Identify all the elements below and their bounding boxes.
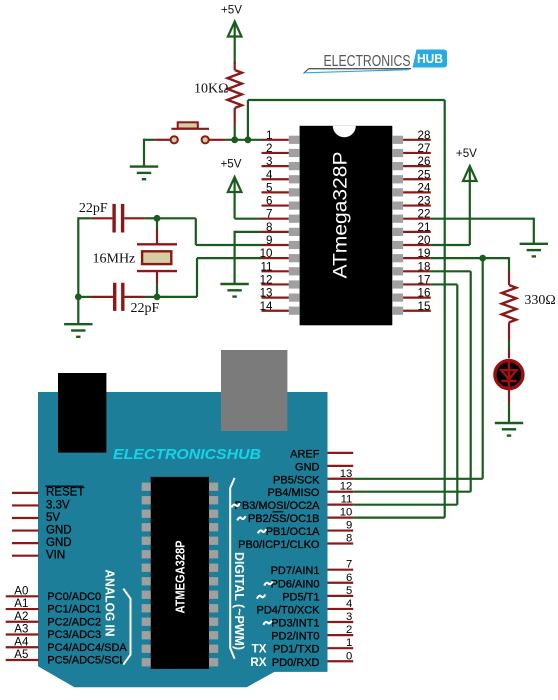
LED D1 — [495, 359, 523, 391]
svg-text:VIN: VIN — [46, 550, 65, 562]
svg-text:ATMEGA328P: ATMEGA328P — [172, 540, 187, 613]
wire XTAL2 to pin10 — [157, 258, 289, 297]
wire pin19 SCK — [403, 257, 509, 259]
wire button left to ground — [144, 139, 170, 167]
wire RESET net top horizontal — [248, 99, 445, 101]
svg-text:PC5/ADC5/SCL: PC5/ADC5/SCL — [47, 655, 125, 667]
resistor R1 10K ohm pullup — [228, 70, 242, 108]
node junction RESET B — [245, 136, 252, 143]
svg-text:3.3V: 3.3V — [46, 499, 70, 511]
wire pin8 to ground — [235, 231, 289, 284]
svg-text:2: 2 — [346, 624, 352, 636]
svg-text:2: 2 — [266, 142, 272, 155]
node junction XTAL2 — [154, 294, 161, 301]
svg-text:ANALOG IN: ANALOG IN — [103, 570, 118, 637]
svg-text:16: 16 — [418, 287, 431, 300]
arduino analog bracket — [123, 589, 130, 665]
wire pin17 to arduino D11 — [353, 284, 457, 504]
svg-text:PC4/ADC4/SDA: PC4/ADC4/SDA — [47, 642, 127, 654]
wire RESET node horizontal to pin1 — [225, 139, 288, 141]
power +5V supply VCC1 label — [221, 4, 242, 17]
push button SW1 right terminal — [202, 136, 209, 143]
IC U1 left pin numbers 1-14 — [260, 129, 273, 313]
svg-text:PD7/AIN1: PD7/AIN1 — [271, 565, 320, 577]
svg-text:PC0/ADC0: PC0/ADC0 — [47, 591, 101, 603]
wire VCC2 to pin7 — [235, 218, 289, 220]
svg-text:PD4/T0/XCK: PD4/T0/XCK — [257, 604, 321, 616]
svg-text:14: 14 — [260, 300, 273, 313]
svg-text:GND: GND — [295, 461, 320, 473]
arduino left power pin leads — [12, 493, 39, 556]
svg-text:PB2/SS/OC1B: PB2/SS/OC1B — [248, 513, 320, 525]
svg-text:PD1/TXD: PD1/TXD — [273, 644, 320, 656]
svg-text:RESET: RESET — [46, 487, 84, 499]
node junction RESET A — [231, 136, 238, 143]
wire button right to RESET node — [209, 139, 225, 141]
svg-text:8: 8 — [266, 221, 272, 234]
svg-text:5: 5 — [266, 181, 272, 194]
crystal X1 16MHz — [137, 218, 177, 297]
svg-text:16MHz: 16MHz — [93, 252, 136, 267]
svg-text:A1: A1 — [14, 598, 28, 610]
svg-text:7: 7 — [266, 208, 272, 221]
capacitor C2 22pF — [78, 283, 157, 311]
wire R2 to LED — [508, 322, 510, 358]
IC U1 right pin leads — [403, 140, 431, 311]
svg-text:12: 12 — [260, 273, 273, 286]
svg-text:TX: TX — [252, 643, 267, 656]
svg-text:PB5/SCK: PB5/SCK — [273, 474, 320, 486]
arduino IC ATMEGA328P chip — [142, 477, 219, 669]
IC U1 label ATmega328P — [329, 152, 351, 279]
svg-text:0: 0 — [346, 650, 352, 662]
arduino TX RX labels — [250, 643, 266, 669]
svg-text:GND: GND — [46, 537, 72, 549]
svg-text:A2: A2 — [14, 611, 28, 623]
arduino DIGITAL PWM label — [232, 552, 247, 650]
power +5V supply VCC3 arrow symbol — [463, 166, 477, 245]
svg-text:RX: RX — [250, 656, 266, 669]
arduino right pin labels — [235, 448, 321, 668]
power +5V supply VCC2 arrow symbol — [228, 177, 242, 219]
svg-text:PD0/RXD: PD0/RXD — [272, 657, 320, 669]
svg-text:4: 4 — [266, 168, 273, 181]
svg-text:ELECTRONICS: ELECTRONICS — [324, 53, 411, 70]
arduino right pin leads — [328, 453, 354, 661]
svg-text:22pF: 22pF — [79, 201, 108, 216]
power +5V supply VCC2 label — [221, 157, 242, 170]
wire pin18 to arduino D12 — [353, 271, 471, 491]
node junction pin19 SCK — [479, 255, 486, 262]
logo ELECTRONICS text — [324, 53, 411, 70]
IC U1 right pin numbers 28-15 — [418, 129, 431, 313]
wire LED to ground — [508, 387, 510, 423]
svg-text:5: 5 — [346, 585, 352, 597]
wire pin22 to ground — [403, 218, 534, 244]
svg-text:ATmega328P: ATmega328P — [329, 152, 351, 279]
svg-text:A3: A3 — [14, 624, 28, 636]
svg-text:11: 11 — [341, 494, 353, 506]
power +5V supply VCC3 label — [456, 147, 477, 160]
svg-text:PD5/T1: PD5/T1 — [282, 591, 319, 603]
svg-text:27: 27 — [418, 142, 431, 155]
svg-text:10: 10 — [260, 247, 273, 260]
wire caps to ground — [77, 297, 79, 324]
arduino digital pin numbers 13-0 — [340, 468, 353, 662]
svg-text:PD2/INT0: PD2/INT0 — [271, 631, 319, 643]
svg-text:HUB: HUB — [417, 51, 443, 66]
svg-text:25: 25 — [418, 168, 431, 181]
svg-text:AREF: AREF — [290, 448, 320, 460]
svg-text:3: 3 — [346, 611, 352, 623]
svg-text:9: 9 — [266, 234, 272, 247]
ground GND3 crystal — [64, 324, 92, 337]
wire pin19 to arduino D13 — [353, 258, 483, 479]
arduino digital bracket — [230, 478, 234, 659]
svg-text:PD3/INT1: PD3/INT1 — [271, 618, 319, 630]
svg-text:A4: A4 — [14, 636, 29, 648]
label R2 value 330Ω — [524, 293, 555, 308]
push button SW1 left terminal — [171, 136, 178, 143]
arduino PWM tilde marks — [232, 503, 273, 625]
wire cap left vertical — [77, 217, 79, 297]
wire RESET net vertical to arduino D10 — [444, 100, 446, 518]
arduino analog pin labels PC0-PC5 — [47, 591, 127, 667]
svg-text:7: 7 — [346, 559, 352, 571]
wire XTAL1 to pin9 — [157, 218, 289, 245]
svg-text:A5: A5 — [14, 649, 28, 661]
arduino left power pin labels RESET 3.3V 5V GND GND VIN — [46, 486, 85, 561]
node junction caps ground — [75, 294, 82, 301]
svg-text:6: 6 — [266, 195, 272, 208]
ground GND1 button — [130, 167, 158, 180]
label R1 value 10KΩ — [194, 82, 229, 97]
arduino SS overline — [273, 511, 284, 513]
ground GND5 LED — [495, 423, 523, 436]
wire VCC1 to R1 — [234, 62, 236, 70]
svg-text:21: 21 — [418, 221, 431, 234]
svg-text:GND: GND — [46, 524, 72, 536]
svg-text:15: 15 — [418, 300, 431, 313]
ground GND4 pin22 — [520, 244, 548, 257]
svg-text:330Ω: 330Ω — [524, 293, 555, 308]
svg-text:PB4/MISO: PB4/MISO — [268, 487, 320, 499]
svg-text:PB3/MOSI/OC2A: PB3/MOSI/OC2A — [235, 500, 321, 512]
power +5V supply VCC1 arrow symbol — [228, 22, 242, 65]
crystal X1 16MHz label — [93, 252, 136, 267]
svg-text:12: 12 — [340, 481, 353, 493]
arduino analog pin numbers A0-A5 — [14, 585, 29, 661]
svg-text:DIGITAL (~PWM): DIGITAL (~PWM) — [232, 552, 247, 650]
logo underline — [304, 69, 412, 74]
svg-text:A0: A0 — [14, 585, 28, 597]
svg-text:+5V: +5V — [221, 157, 242, 170]
svg-text:1: 1 — [346, 637, 352, 649]
arduino power jack — [221, 350, 287, 431]
logo HUB box — [413, 50, 448, 68]
svg-text:10: 10 — [340, 507, 353, 519]
svg-text:6: 6 — [346, 572, 352, 584]
arduino logo ELECTRONICSHUB — [113, 446, 261, 463]
push button SW1 body — [171, 122, 209, 129]
svg-text:5V: 5V — [46, 512, 60, 524]
arduino USB connector — [58, 373, 106, 453]
arduino ANALOG IN label — [103, 570, 118, 637]
svg-text:22pF: 22pF — [131, 301, 160, 316]
logo cyan swoosh — [306, 70, 410, 73]
svg-text:23: 23 — [418, 195, 431, 208]
svg-text:26: 26 — [418, 155, 431, 168]
svg-text:3: 3 — [266, 155, 272, 168]
svg-text:ELECTRONICSHUB: ELECTRONICSHUB — [113, 446, 261, 463]
svg-text:PC2/ADC2: PC2/ADC2 — [47, 616, 101, 628]
svg-text:PB1/OC1A: PB1/OC1A — [266, 526, 320, 538]
svg-text:10KΩ: 10KΩ — [194, 82, 229, 97]
IC U1 left pin leads — [262, 153, 289, 311]
svg-text:PC3/ADC3: PC3/ADC3 — [47, 629, 101, 641]
svg-text:13: 13 — [340, 468, 353, 480]
svg-text:8: 8 — [346, 532, 352, 544]
svg-text:4: 4 — [346, 598, 352, 610]
capacitor C2 22pF label — [131, 301, 160, 316]
wire SCK node to R2 — [508, 257, 510, 285]
wire RESET node up — [247, 100, 249, 140]
svg-text:PC1/ADC1: PC1/ADC1 — [47, 604, 101, 616]
svg-text:11: 11 — [260, 260, 272, 273]
svg-text:24: 24 — [418, 181, 431, 194]
resistor R2 330 ohm — [502, 285, 516, 322]
arduino chip label ATMEGA328P — [172, 540, 187, 613]
svg-text:9: 9 — [346, 520, 352, 532]
wire VCC3 to pin20 — [403, 244, 470, 246]
svg-text:+5V: +5V — [221, 4, 242, 17]
op IC U1 ATmega328P body — [289, 126, 403, 325]
ground GND2 pin8 — [220, 284, 248, 297]
capacitor C1 22pF label — [79, 201, 108, 216]
svg-text:PB0/ICP1/CLKO: PB0/ICP1/CLKO — [238, 539, 320, 551]
svg-text:+5V: +5V — [456, 147, 477, 160]
capacitor C1 22pF — [78, 204, 157, 233]
node junction XTAL1 — [154, 215, 161, 222]
svg-text:PD6/AIN0: PD6/AIN0 — [271, 578, 320, 590]
arduino board body — [38, 392, 328, 687]
svg-text:13: 13 — [260, 287, 273, 300]
arduino analog pin leads A0-A5 — [6, 596, 39, 660]
wire R1 to RESET node — [234, 108, 236, 141]
svg-text:28: 28 — [418, 129, 431, 142]
svg-text:1: 1 — [266, 129, 272, 142]
wire arduino D10 horizontal — [353, 516, 445, 518]
